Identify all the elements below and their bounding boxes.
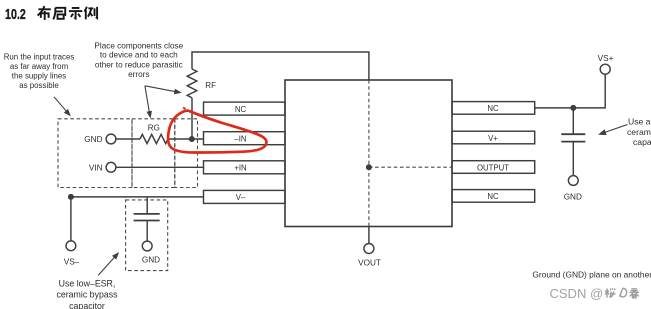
note arrow to input dashed box [54,97,71,117]
svg-text:V+: V+ [488,134,498,143]
title glyph 例 [84,7,97,20]
note arrow to RG box [145,86,152,119]
title glyph 布 [38,6,51,20]
svg-text:VIN: VIN [89,163,103,172]
svg-text:VS+: VS+ [598,54,614,63]
wire GND to RG [116,138,140,140]
watermark CSDN [550,286,604,301]
note: run input traces text [4,53,75,91]
pin -IN [204,132,286,145]
svg-text:GND: GND [564,192,582,201]
svg-text:RG: RG [148,123,160,132]
terminal VS- [64,241,80,267]
node VS+ junction [570,105,576,111]
op-amp IC body U1 [285,80,452,227]
wire VOUT [368,227,370,244]
svg-text:other to reduce parasitic: other to reduce parasitic [95,61,183,70]
svg-text:OUTPUT: OUTPUT [477,163,509,172]
svg-text:capacitor: capacitor [69,301,105,309]
svg-text:as possible: as possible [19,81,59,90]
svg-text:+IN: +IN [234,164,246,173]
note arrow to right capacitor [598,125,628,136]
svg-text:Run the input traces: Run the input traces [4,53,75,62]
wire down to VS- [70,197,72,241]
red annotation blob around -IN [168,111,266,153]
dashed box: junction region [175,119,198,188]
pin V+ [452,131,535,144]
svg-text:Use low–ESR,: Use low–ESR, [59,279,116,289]
svg-text:VS–: VS– [64,258,80,267]
pin NC left [204,102,286,115]
node V- corner [68,194,74,200]
text ground plane note (clipped) [532,269,651,279]
dashed box: input region [58,119,132,188]
title glyph 局 [53,8,65,20]
watermark glyph 桜 [605,288,616,298]
watermark glyph の [620,288,627,297]
resistor RG [140,123,168,143]
svg-text:ceramic bypass: ceramic bypass [627,127,651,137]
svg-text:RF: RF [205,81,216,90]
wire V- rail to capacitor [146,197,148,213]
wire NC to VS+ rail [535,74,606,108]
svg-text:capacitor: capacitor [633,137,651,147]
wire RG to -IN pin [168,138,204,140]
pin +IN [204,161,286,174]
note: use ceramic cap right (clipped) [627,117,651,147]
svg-text:NC: NC [487,104,499,113]
svg-text:CSDN @: CSDN @ [550,286,604,301]
terminal VOUT [358,244,381,268]
watermark glyph 春 [630,289,640,298]
note arrow to RF [145,86,182,94]
IC dashed centerline vertical [368,80,370,227]
svg-text:Ground (GND) plane on another: Ground (GND) plane on another layer [532,269,651,279]
terminal VIN [89,162,116,172]
wire VIN to +IN pin [116,166,204,168]
dashed box: bypass cap left [126,200,168,271]
pin V- left [204,190,286,203]
svg-text:to device and to each: to device and to each [100,51,178,60]
wire capacitor to GND [572,143,574,176]
pin NC right top [452,102,535,115]
terminal VS+ [598,54,614,74]
pin NC right bottom [452,190,535,203]
wire feedback from RF top to IC top [192,52,369,80]
note arrow to bypass cap box [98,252,119,275]
resistor RF [187,69,216,98]
svg-text:10.2: 10.2 [5,7,26,23]
svg-text:–IN: –IN [234,135,246,144]
svg-text:GND: GND [84,135,102,144]
svg-text:errors: errors [128,70,149,79]
dashed box: RG region [132,119,175,188]
terminal GND (bypass left) [142,241,160,264]
svg-text:ceramic bypass: ceramic bypass [56,290,118,300]
wire capacitor to GND [146,221,148,241]
svg-text:NC: NC [487,192,499,201]
svg-text:V–: V– [236,193,246,202]
svg-text:the supply lines: the supply lines [12,72,66,81]
title glyph 示 [69,8,82,18]
IC center dot [366,164,372,170]
wire RF bottom to junction [191,98,193,139]
terminal GND right [564,176,582,202]
svg-text:Use a low–ESR,: Use a low–ESR, [628,117,651,127]
svg-text:VOUT: VOUT [358,259,381,268]
title 10.2 布局示例 [5,7,26,23]
terminal GND (left input) [84,134,116,144]
wire junction to capacitor [572,108,574,134]
capacitor C bypass left [134,214,160,221]
red annotation tick [184,107,185,110]
capacitor C decoupling right [561,134,585,141]
wire V- rail [71,196,204,198]
svg-text:as far away from: as far away from [10,62,69,71]
pin OUTPUT [452,161,535,174]
note: use low-ESR text [56,279,118,309]
note: place components text [94,42,183,79]
IC dashed centerline horizontal [369,166,452,168]
node junction -IN [189,136,195,142]
svg-text:Place components close: Place components close [94,42,183,51]
svg-text:GND: GND [142,255,160,264]
svg-text:NC: NC [235,105,247,114]
